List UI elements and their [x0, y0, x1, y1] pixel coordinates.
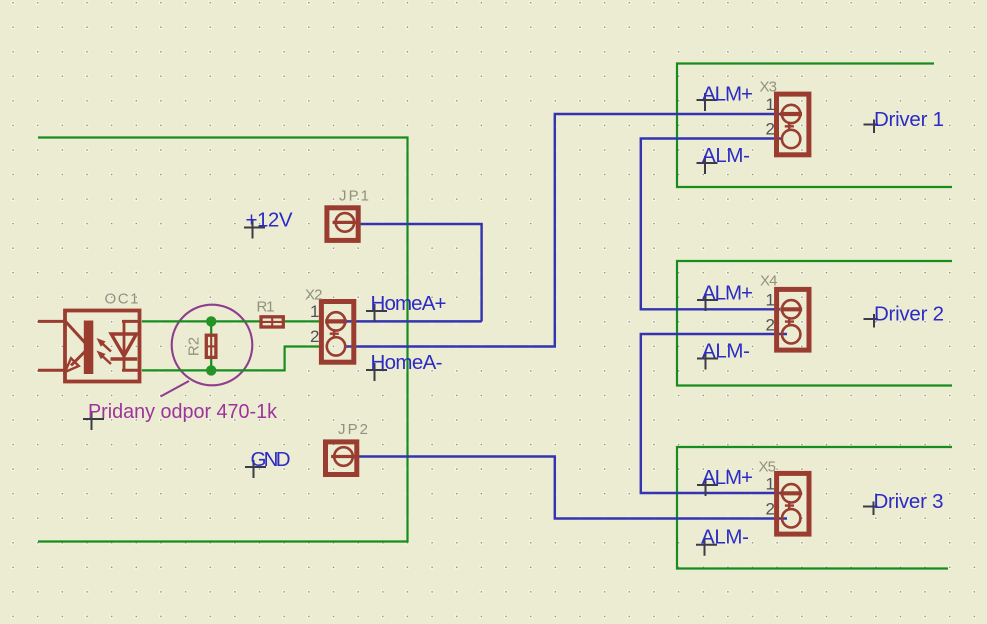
svg-text:ALM+: ALM+ — [702, 282, 753, 305]
svg-text:ALM-: ALM- — [702, 144, 750, 167]
svg-text:X5: X5 — [759, 459, 777, 476]
svg-text:ALM-: ALM- — [702, 340, 750, 363]
svg-text:Driver 1: Driver 1 — [874, 108, 944, 131]
svg-text:HomeA-: HomeA- — [371, 351, 443, 374]
svg-text:ALM-: ALM- — [701, 526, 749, 549]
svg-text:1: 1 — [766, 95, 775, 114]
svg-text:2: 2 — [766, 315, 775, 334]
svg-text:JP2: JP2 — [338, 421, 368, 438]
svg-text:ALM+: ALM+ — [702, 466, 753, 489]
svg-text:X3: X3 — [760, 79, 778, 96]
svg-text:1: 1 — [766, 290, 775, 309]
svg-text:JP1: JP1 — [339, 188, 369, 205]
svg-text:GND: GND — [251, 448, 291, 471]
svg-text:ALM+: ALM+ — [702, 83, 753, 106]
svg-text:Driver 2: Driver 2 — [874, 303, 944, 326]
svg-text:HomeA+: HomeA+ — [371, 292, 447, 315]
svg-text:1: 1 — [310, 302, 319, 321]
svg-text:1: 1 — [766, 474, 775, 493]
svg-text:2: 2 — [766, 499, 775, 518]
svg-text:Driver 3: Driver 3 — [874, 490, 944, 513]
svg-text:R1: R1 — [257, 299, 275, 316]
svg-text:OC1: OC1 — [105, 291, 139, 308]
svg-text:2: 2 — [310, 327, 319, 346]
svg-text:R2: R2 — [186, 337, 203, 356]
svg-text:+12V: +12V — [246, 209, 293, 232]
svg-text:Pridany odpor 470-1k: Pridany odpor 470-1k — [88, 400, 278, 423]
svg-text:2: 2 — [766, 120, 775, 139]
svg-text:X4: X4 — [760, 273, 778, 290]
